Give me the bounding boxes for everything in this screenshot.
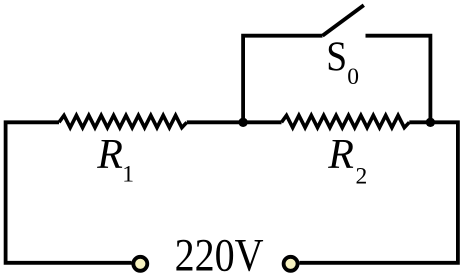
wire switch right contact: [366, 36, 431, 123]
svg-text:2: 2: [356, 164, 368, 190]
node junction right: [426, 118, 435, 127]
svg-text:1: 1: [122, 162, 134, 188]
svg-text:S: S: [326, 34, 347, 80]
wire R1 to R2: [187, 120, 282, 124]
wire left-bottom loop: [6, 122, 132, 262]
terminal right: [284, 257, 298, 271]
wire right side down to bottom: [299, 122, 458, 262]
resistor R2: [282, 115, 410, 127]
svg-text:220V: 220V: [175, 230, 264, 277]
switch S0 blade: [323, 5, 364, 36]
wire switch branch left riser: [243, 36, 322, 123]
svg-text:R: R: [96, 132, 123, 178]
svg-text:R: R: [327, 132, 354, 178]
terminal left: [133, 257, 147, 271]
node junction left: [238, 118, 247, 127]
wire R2 to right node: [409, 120, 430, 124]
svg-text:0: 0: [347, 64, 359, 90]
resistor R1: [59, 115, 187, 127]
